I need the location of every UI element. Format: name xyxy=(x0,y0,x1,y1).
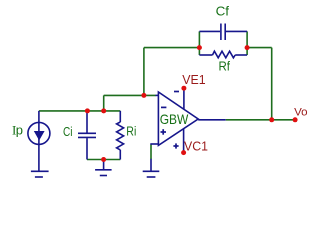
svg-text:VC1: VC1 xyxy=(184,138,208,153)
capacitor Cf xyxy=(199,24,247,41)
node dot VE1 xyxy=(181,86,186,91)
svg-text:Ri: Ri xyxy=(126,124,136,139)
wire: branch up from top rail xyxy=(103,95,105,111)
wire: feedback network right to output branch xyxy=(247,47,272,49)
svg-text:VE1: VE1 xyxy=(182,72,205,87)
wire: bottom rail Ci to Ri xyxy=(87,159,120,161)
wire: output horizontal to Vo xyxy=(226,119,295,121)
wire: feedback left node vertical (Cf pin to Rf pin) xyxy=(198,31,200,55)
junction dot node A (inverting input) xyxy=(141,93,146,98)
junction dot branch-up xyxy=(101,108,106,113)
op-amp U1 triangle xyxy=(158,92,198,145)
op-amp non-inverting input stub xyxy=(150,143,158,145)
capacitor Ci xyxy=(78,111,96,160)
ground under bottom rail xyxy=(95,160,112,176)
svg-text:p: p xyxy=(16,123,23,138)
svg-text:Cf: Cf xyxy=(216,4,230,19)
resistor Ri xyxy=(117,111,124,160)
junction dot Ci top xyxy=(85,108,90,113)
resistor Rf xyxy=(199,51,247,58)
svg-text:Rf: Rf xyxy=(219,59,231,74)
ground under Ip xyxy=(31,171,49,177)
svg-text:Vo: Vo xyxy=(294,107,308,119)
wire: op-amp + input to ground xyxy=(150,144,152,159)
op-amp output lead xyxy=(198,119,226,121)
op-amp VC1 supply pin xyxy=(183,129,185,153)
ground under op-amp + input xyxy=(143,159,160,177)
wire: feedback vertical at node A xyxy=(143,48,145,96)
node dot Vo xyxy=(293,117,298,122)
op-amp inverting input stub xyxy=(156,94,159,96)
wire: feedback right node vertical (Cf pin to Rf pin) xyxy=(246,31,248,55)
junction dot bottom rail ground xyxy=(101,157,106,162)
junction dot feedback left xyxy=(197,45,202,50)
minus marker inside op-amp xyxy=(161,106,166,108)
wire: to feedback network left xyxy=(144,47,200,49)
junction dot output branch xyxy=(269,117,274,122)
node dot VC1 xyxy=(181,150,186,155)
wire: output branch vertical xyxy=(271,48,273,120)
plus marker inside op-amp xyxy=(161,129,167,135)
plus marker at VC1 supply xyxy=(173,143,178,148)
op-amp VE1 supply pin xyxy=(183,88,185,109)
wire: to op-amp inverting input xyxy=(104,94,156,96)
wire: Ip top rail to Ri top xyxy=(39,110,120,112)
svg-text:Ci: Ci xyxy=(63,124,73,139)
junction dot feedback right xyxy=(245,45,250,50)
current source Ip xyxy=(28,111,50,171)
svg-text:GBW: GBW xyxy=(160,111,189,127)
minus marker at VE1 supply xyxy=(174,91,179,93)
